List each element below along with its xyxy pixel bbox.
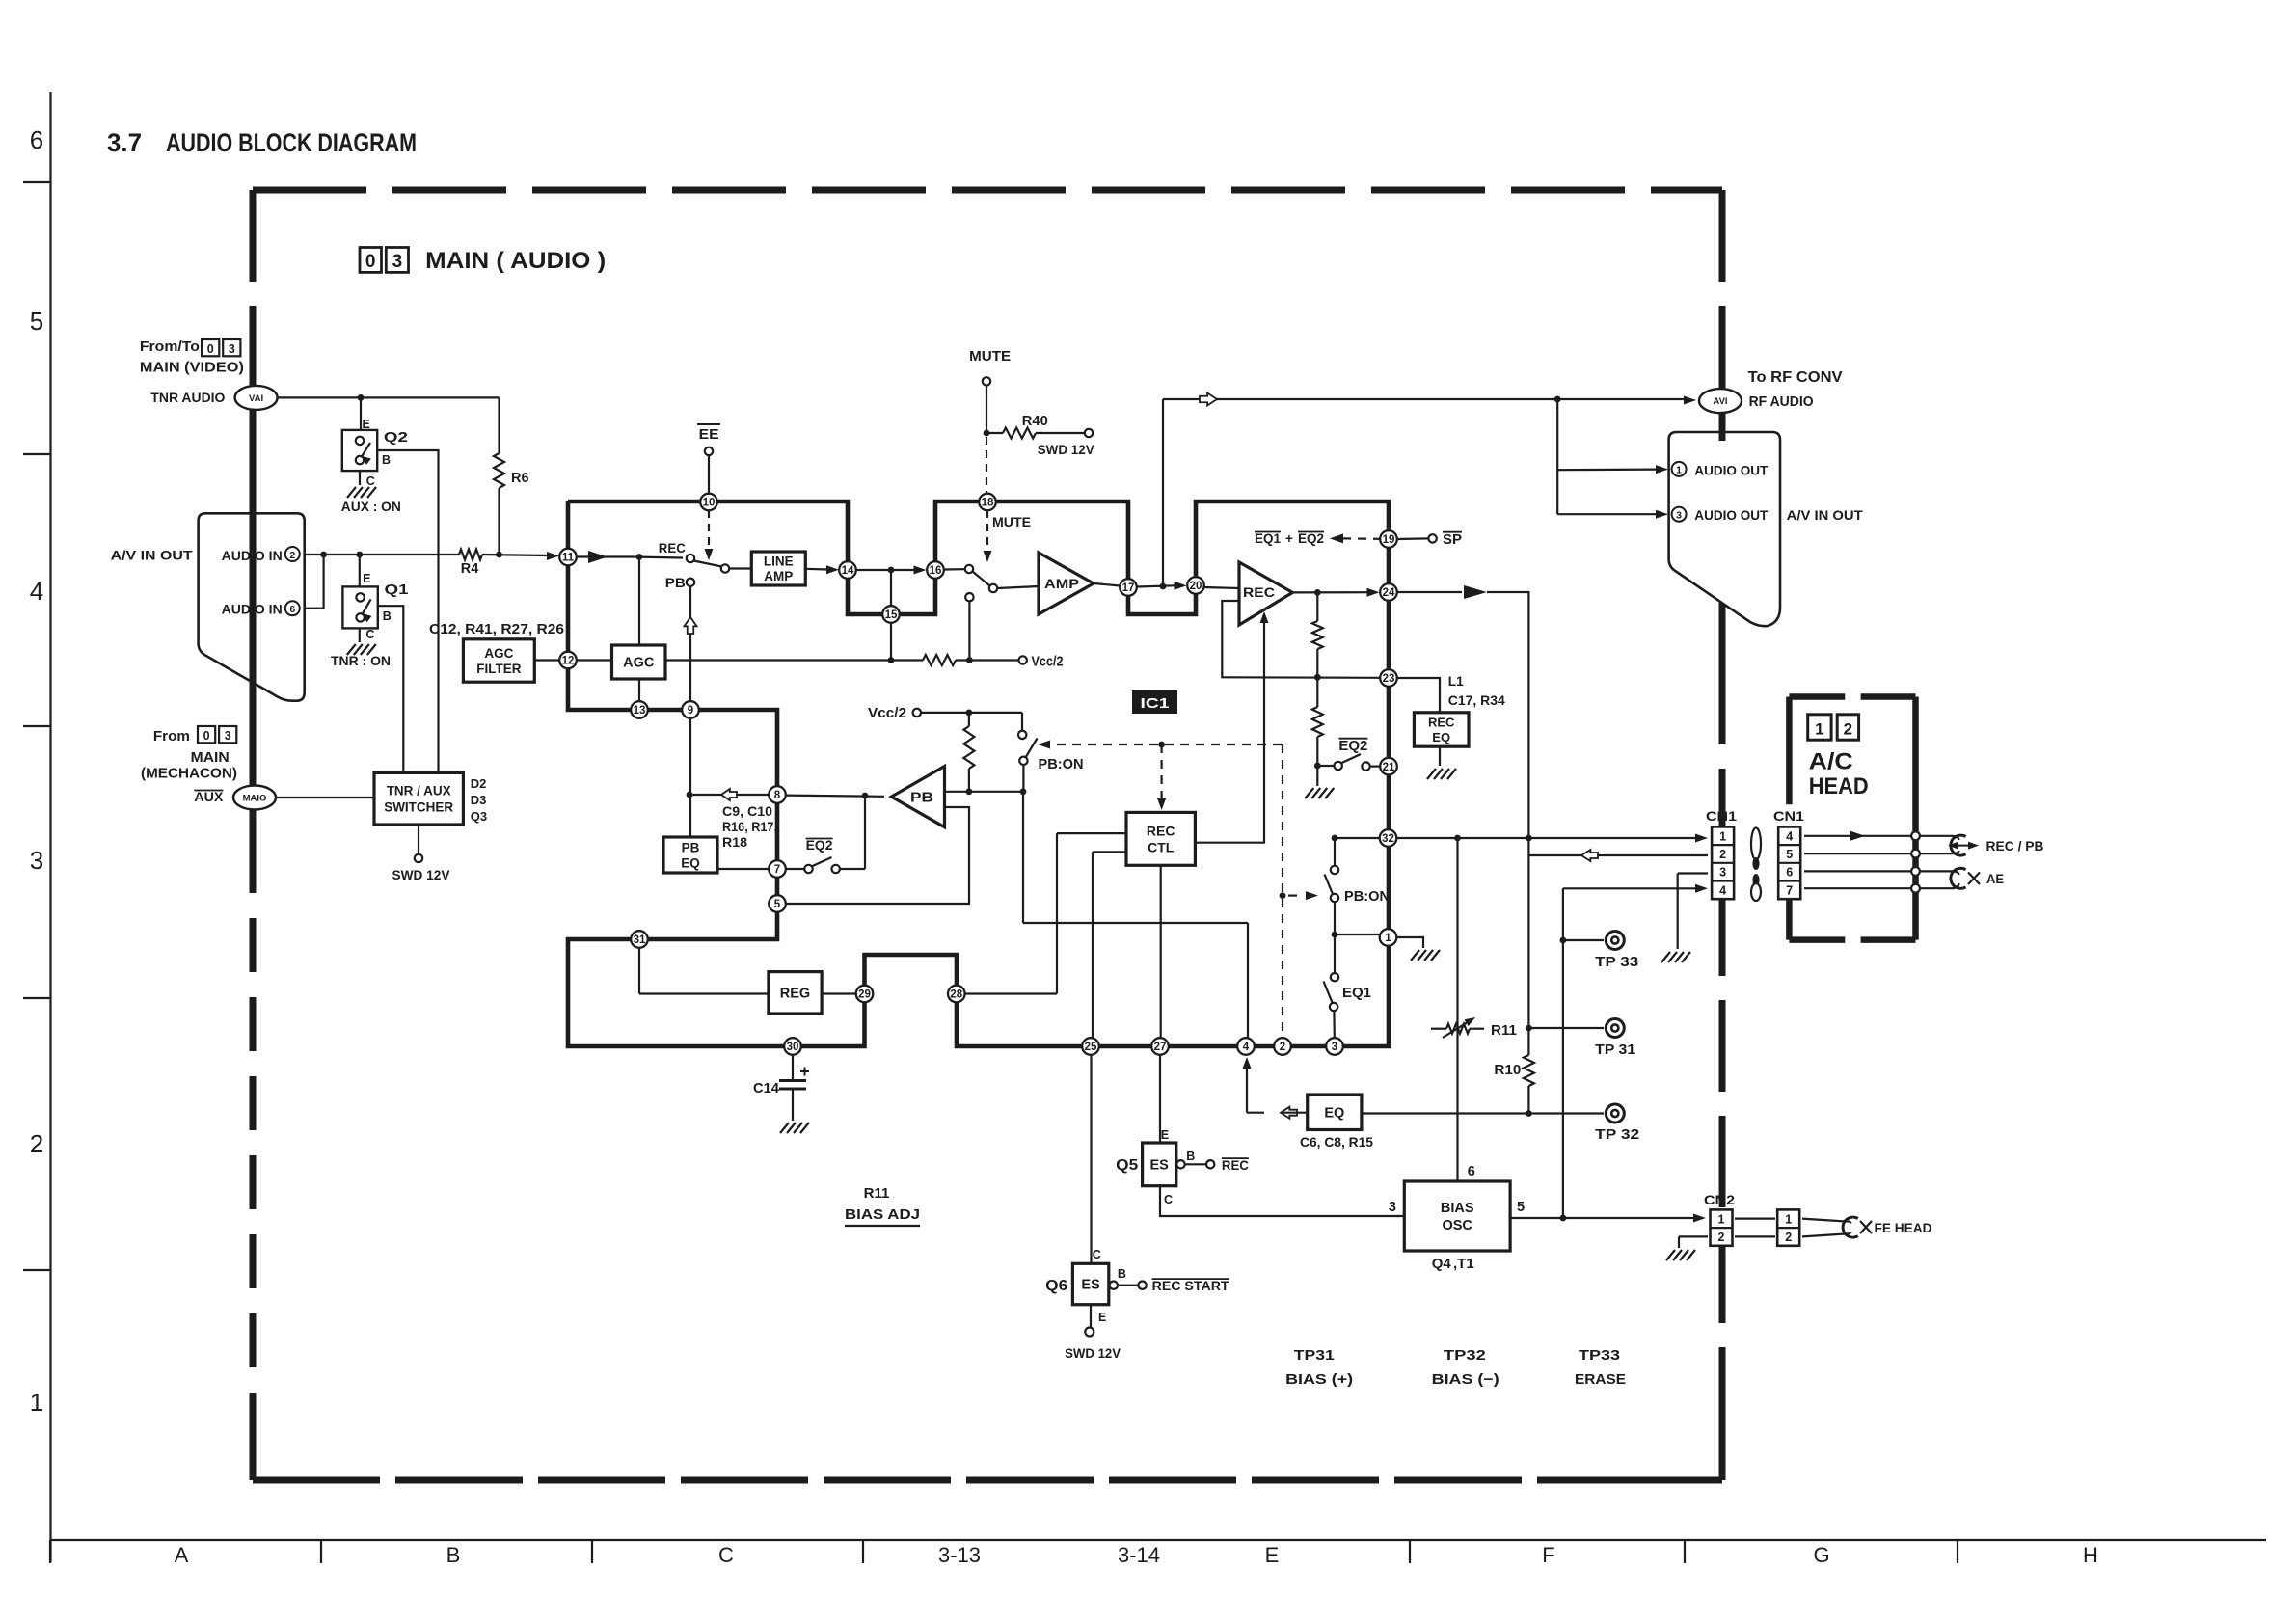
svg-text:3.7: 3.7 — [107, 128, 142, 157]
svg-text:RF AUDIO: RF AUDIO — [1749, 394, 1814, 410]
svg-text:4: 4 — [1243, 1042, 1250, 1053]
svg-text:5: 5 — [1786, 848, 1793, 861]
svg-text:CN1: CN1 — [1706, 808, 1737, 824]
svg-text:31: 31 — [634, 934, 646, 946]
svg-text:C: C — [1093, 1248, 1101, 1261]
svg-text:C17, R34: C17, R34 — [1448, 692, 1505, 708]
svg-text:REG: REG — [780, 987, 810, 1002]
svg-text:18: 18 — [982, 498, 994, 509]
svg-text:6: 6 — [30, 125, 43, 154]
svg-text:C: C — [1164, 1193, 1173, 1206]
svg-text:7: 7 — [1786, 883, 1793, 897]
svg-text:14: 14 — [842, 565, 854, 577]
svg-text:11: 11 — [562, 553, 575, 564]
svg-text:+: + — [1285, 531, 1293, 546]
svg-text:17: 17 — [1122, 582, 1135, 594]
svg-text:PB: PB — [910, 791, 933, 806]
svg-text:ERASE: ERASE — [1575, 1371, 1626, 1388]
svg-text:REC / PB: REC / PB — [1986, 839, 2044, 853]
svg-text:BIAS: BIAS — [1441, 1201, 1474, 1216]
svg-text:Q5: Q5 — [1116, 1157, 1138, 1174]
svg-text:A/V IN OUT: A/V IN OUT — [111, 549, 194, 563]
svg-text:3: 3 — [1676, 510, 1682, 522]
svg-text:4: 4 — [1786, 829, 1793, 843]
svg-text:TP 31: TP 31 — [1595, 1042, 1635, 1058]
svg-text:E: E — [1161, 1128, 1169, 1142]
svg-text:3: 3 — [1389, 1200, 1396, 1215]
svg-text:3: 3 — [1719, 866, 1726, 880]
svg-text:5: 5 — [1517, 1200, 1525, 1215]
svg-text:IC1: IC1 — [1141, 695, 1170, 712]
svg-text:TP32: TP32 — [1444, 1347, 1486, 1364]
svg-text:Vcc/2: Vcc/2 — [1032, 654, 1064, 670]
svg-text:MAIN ( AUDIO ): MAIN ( AUDIO ) — [425, 248, 606, 274]
svg-text:SWITCHER: SWITCHER — [384, 800, 453, 815]
svg-text:TNR AUDIO: TNR AUDIO — [150, 390, 225, 405]
svg-text:REC: REC — [1243, 585, 1275, 600]
svg-text:SWD 12V: SWD 12V — [1038, 442, 1095, 457]
svg-text:B: B — [1118, 1267, 1126, 1281]
svg-text:2: 2 — [1785, 1231, 1792, 1244]
svg-text:EE: EE — [699, 427, 719, 443]
svg-text:L1: L1 — [1448, 673, 1464, 689]
svg-text:D2: D2 — [471, 776, 487, 791]
svg-text:REC: REC — [1147, 823, 1175, 838]
svg-text:ES: ES — [1081, 1278, 1100, 1293]
svg-text:REC: REC — [1428, 715, 1455, 729]
svg-text:30: 30 — [787, 1042, 799, 1053]
svg-text:D3: D3 — [471, 793, 487, 807]
svg-text:R10: R10 — [1494, 1063, 1521, 1078]
svg-text:3-14: 3-14 — [1118, 1543, 1160, 1567]
svg-text:BIAS (−): BIAS (−) — [1432, 1371, 1499, 1388]
svg-text:28: 28 — [950, 989, 962, 1001]
svg-text:CN2: CN2 — [1704, 1192, 1735, 1207]
svg-text:TNR : ON: TNR : ON — [331, 653, 391, 668]
svg-text:EQ1: EQ1 — [1255, 531, 1281, 546]
svg-text:A/C: A/C — [1809, 749, 1853, 775]
svg-text:0: 0 — [365, 252, 376, 272]
svg-text:REC START: REC START — [1152, 1278, 1229, 1293]
svg-text:A/V IN OUT: A/V IN OUT — [1787, 508, 1864, 523]
svg-text:TP 33: TP 33 — [1595, 955, 1638, 970]
svg-text:VAI: VAI — [249, 393, 263, 404]
svg-text:EQ1: EQ1 — [1342, 986, 1371, 1001]
svg-text:E: E — [363, 418, 370, 431]
svg-text:G: G — [1813, 1543, 1829, 1567]
svg-text:AUDIO BLOCK DIAGRAM: AUDIO BLOCK DIAGRAM — [166, 128, 417, 157]
svg-text:1: 1 — [1785, 1212, 1792, 1226]
svg-text:ES: ES — [1150, 1158, 1170, 1174]
svg-text:MAIN (VIDEO): MAIN (VIDEO) — [140, 361, 244, 376]
svg-text:B: B — [382, 453, 391, 467]
svg-text:B: B — [383, 609, 392, 623]
svg-text:R11: R11 — [864, 1185, 890, 1202]
svg-text:1: 1 — [1385, 933, 1391, 944]
svg-text:AUDIO IN: AUDIO IN — [222, 549, 283, 563]
svg-text:FILTER: FILTER — [476, 662, 521, 676]
svg-text:LINE: LINE — [764, 555, 794, 569]
svg-text:15: 15 — [885, 609, 898, 621]
svg-text:1: 1 — [1719, 829, 1726, 843]
svg-text:29: 29 — [858, 989, 871, 1001]
svg-text:To RF CONV: To RF CONV — [1748, 369, 1844, 386]
svg-text:1: 1 — [1676, 465, 1682, 476]
svg-text:3: 3 — [1332, 1042, 1337, 1053]
svg-text:0: 0 — [203, 729, 210, 743]
svg-text:AUDIO OUT: AUDIO OUT — [1694, 508, 1769, 523]
svg-text:5: 5 — [30, 307, 43, 336]
svg-text:SWD 12V: SWD 12V — [1065, 1345, 1121, 1361]
svg-text:B: B — [1186, 1150, 1195, 1163]
svg-text:SWD 12V: SWD 12V — [392, 867, 451, 882]
svg-text:E: E — [1098, 1311, 1106, 1324]
svg-text:6: 6 — [1786, 866, 1793, 880]
svg-text:6: 6 — [1468, 1164, 1475, 1179]
svg-text:EQ: EQ — [1324, 1105, 1344, 1121]
svg-text:AUDIO OUT: AUDIO OUT — [1694, 463, 1769, 477]
svg-text:AUX : ON: AUX : ON — [341, 499, 401, 514]
svg-text:1: 1 — [1815, 720, 1823, 739]
svg-text:C: C — [366, 474, 375, 488]
svg-text:TP33: TP33 — [1579, 1347, 1620, 1364]
svg-text:27: 27 — [1154, 1042, 1167, 1053]
svg-text:TP 32: TP 32 — [1595, 1127, 1639, 1143]
svg-text:C14: C14 — [753, 1081, 779, 1096]
svg-text:4: 4 — [30, 577, 43, 606]
svg-text:3: 3 — [392, 252, 403, 272]
svg-text:C: C — [365, 628, 374, 641]
svg-text:Q6: Q6 — [1045, 1278, 1067, 1294]
svg-text:AUDIO IN: AUDIO IN — [222, 603, 283, 617]
svg-text:PB: PB — [665, 576, 686, 590]
svg-text:F: F — [1542, 1543, 1554, 1567]
svg-text:R6: R6 — [511, 471, 529, 486]
svg-text:From/To: From/To — [140, 339, 200, 355]
svg-text:AVI: AVI — [1713, 396, 1727, 407]
svg-text:,T1: ,T1 — [1453, 1256, 1474, 1272]
svg-text:25: 25 — [1085, 1042, 1097, 1053]
svg-text:CN1: CN1 — [1773, 808, 1804, 824]
svg-text:EQ2: EQ2 — [806, 838, 833, 853]
svg-text:REC: REC — [659, 541, 686, 555]
svg-text:0: 0 — [207, 342, 214, 356]
svg-text:2: 2 — [289, 550, 295, 561]
svg-text:C12, R41, R27, R26: C12, R41, R27, R26 — [429, 622, 564, 637]
svg-text:E: E — [1265, 1543, 1280, 1567]
svg-text:Vcc/2: Vcc/2 — [868, 705, 906, 721]
svg-text:Q1: Q1 — [385, 582, 409, 598]
svg-text:R40: R40 — [1022, 414, 1048, 429]
svg-text:REC: REC — [1222, 1157, 1249, 1173]
svg-text:PB:ON: PB:ON — [1344, 889, 1390, 905]
svg-text:R4: R4 — [461, 561, 479, 577]
svg-text:R16, R17,: R16, R17, — [722, 820, 777, 834]
svg-text:B: B — [446, 1543, 461, 1567]
svg-text:Q4: Q4 — [1432, 1256, 1452, 1272]
svg-text:10: 10 — [703, 498, 716, 509]
svg-text:8: 8 — [774, 790, 781, 801]
svg-text:EQ: EQ — [681, 855, 700, 870]
svg-text:MAIO: MAIO — [243, 794, 267, 804]
svg-text:12: 12 — [562, 656, 575, 667]
svg-text:4: 4 — [1719, 883, 1726, 897]
svg-text:1: 1 — [1718, 1212, 1725, 1226]
svg-text:OSC: OSC — [1442, 1218, 1472, 1233]
svg-text:EQ2: EQ2 — [1298, 531, 1324, 546]
svg-text:2: 2 — [1719, 848, 1726, 861]
svg-text:SP: SP — [1443, 532, 1462, 548]
svg-text:A: A — [175, 1543, 189, 1567]
svg-text:3: 3 — [30, 846, 43, 875]
svg-text:EQ: EQ — [1432, 730, 1450, 744]
svg-text:C6, C8, R15: C6, C8, R15 — [1300, 1134, 1373, 1150]
svg-text:BIAS ADJ: BIAS ADJ — [845, 1206, 920, 1223]
svg-text:TP31: TP31 — [1294, 1347, 1335, 1364]
svg-text:2: 2 — [30, 1129, 43, 1158]
svg-text:2: 2 — [1280, 1042, 1285, 1053]
svg-text:19: 19 — [1383, 534, 1395, 546]
svg-text:7: 7 — [774, 864, 780, 876]
svg-text:13: 13 — [634, 705, 646, 717]
svg-text:2: 2 — [1844, 720, 1852, 739]
svg-text:HEAD: HEAD — [1809, 773, 1869, 799]
svg-text:MAIN: MAIN — [191, 750, 230, 766]
svg-text:PB: PB — [682, 840, 700, 854]
svg-text:C: C — [718, 1543, 734, 1567]
svg-text:3: 3 — [229, 342, 235, 356]
svg-text:MUTE: MUTE — [969, 349, 1011, 365]
svg-text:AE: AE — [1986, 872, 2004, 886]
svg-text:(MECHACON): (MECHACON) — [141, 767, 237, 782]
svg-text:1: 1 — [30, 1388, 43, 1417]
svg-text:24: 24 — [1383, 587, 1395, 599]
svg-text:E: E — [363, 572, 370, 585]
svg-text:AUX: AUX — [194, 790, 223, 804]
svg-text:TNR / AUX: TNR / AUX — [387, 784, 451, 798]
svg-text:AGC: AGC — [484, 646, 513, 661]
svg-text:R18: R18 — [722, 835, 748, 850]
svg-text:6: 6 — [289, 604, 295, 615]
svg-text:9: 9 — [688, 705, 693, 717]
svg-text:C9, C10: C9, C10 — [722, 804, 772, 819]
svg-text:Q2: Q2 — [384, 429, 408, 446]
svg-text:AGC: AGC — [623, 656, 655, 671]
svg-text:2: 2 — [1718, 1231, 1725, 1244]
svg-text:32: 32 — [1382, 833, 1394, 845]
svg-text:16: 16 — [930, 565, 942, 577]
svg-text:AMP: AMP — [764, 569, 793, 583]
svg-text:MUTE: MUTE — [992, 515, 1031, 529]
svg-text:From: From — [153, 729, 190, 744]
svg-text:PB:ON: PB:ON — [1039, 757, 1084, 772]
svg-text:CTL: CTL — [1148, 839, 1175, 854]
svg-text:20: 20 — [1190, 581, 1202, 592]
svg-text:3-13: 3-13 — [938, 1543, 981, 1567]
svg-text:Q3: Q3 — [471, 809, 487, 824]
svg-text:AMP: AMP — [1044, 577, 1079, 591]
svg-text:FE HEAD: FE HEAD — [1875, 1221, 1932, 1235]
svg-text:EQ2: EQ2 — [1338, 739, 1367, 754]
svg-text:BIAS (+): BIAS (+) — [1285, 1371, 1353, 1388]
svg-text:23: 23 — [1383, 673, 1395, 685]
svg-text:H: H — [2083, 1543, 2098, 1567]
svg-text:3: 3 — [225, 729, 231, 743]
svg-text:5: 5 — [774, 899, 781, 910]
svg-text:21: 21 — [1383, 762, 1395, 773]
svg-text:R11: R11 — [1491, 1023, 1517, 1039]
